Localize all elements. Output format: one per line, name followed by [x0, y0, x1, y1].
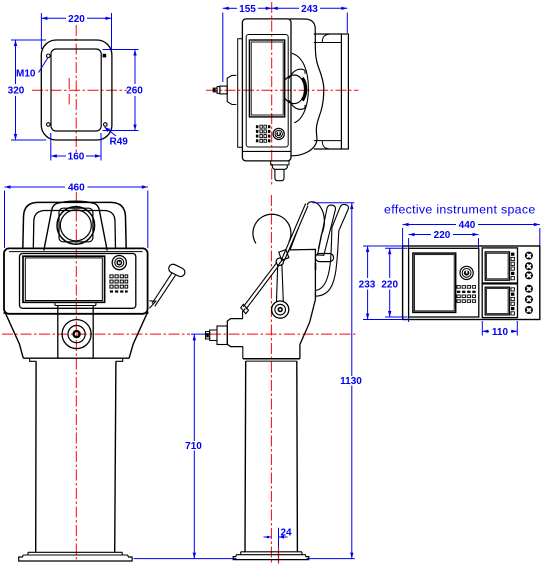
svg-text:260: 260 — [126, 86, 143, 97]
centerline vertical V3 — [75, 192, 77, 562]
svg-text:320: 320 — [8, 86, 25, 97]
keypad grid — [256, 125, 271, 142]
svg-text:233: 233 — [359, 279, 376, 290]
space outer box — [403, 246, 540, 320]
dim 220 panel — [409, 230, 479, 248]
key switch V3 — [112, 256, 126, 270]
keypad V5 — [457, 286, 476, 303]
grip top rim — [289, 69, 305, 78]
centerline horizontal V1 — [32, 89, 127, 91]
head body side — [243, 249, 316, 361]
body shoulder left — [4, 312, 23, 359]
grip bottom rim — [289, 100, 305, 109]
svg-text:220: 220 — [68, 14, 85, 25]
svg-text:24: 24 — [281, 528, 293, 539]
dim 320 left — [8, 40, 46, 140]
column side — [245, 361, 297, 552]
lever arm side — [241, 204, 308, 314]
column front — [36, 361, 116, 552]
outer cover outline — [41, 40, 112, 140]
dim 155 / 243 — [223, 4, 347, 82]
hub circles — [62, 320, 91, 349]
lamp dome side — [253, 214, 291, 243]
pivot bracket — [279, 250, 289, 261]
centerline horizontal V3-V4 — [2, 333, 357, 335]
hand grip end blob — [285, 75, 306, 104]
centerline vertical V1 — [75, 25, 77, 153]
dim 260 right — [103, 50, 144, 131]
screen inner V5 — [414, 255, 454, 311]
control panel outer — [4, 248, 148, 313]
left module box — [409, 248, 479, 317]
dim 460 — [5, 183, 148, 249]
dim 1130 — [307, 203, 363, 559]
handle arch inner — [33, 211, 115, 250]
right module bottom buttons — [511, 288, 514, 315]
screen window inner — [251, 42, 283, 115]
left foot tab — [30, 358, 37, 361]
screen inner V3 — [25, 258, 102, 301]
svg-text:160: 160 — [68, 152, 85, 163]
screen outer V3 — [23, 256, 105, 302]
svg-text:effective instrument space: effective instrument space — [384, 203, 536, 217]
left spigot V2 — [213, 75, 236, 104]
body shoulder right — [129, 312, 148, 359]
svg-text:110: 110 — [492, 327, 509, 338]
pendulum weight circles — [272, 301, 289, 318]
shoulder bottom edge — [23, 357, 129, 359]
svg-text:460: 460 — [68, 183, 85, 194]
svg-text:1130: 1130 — [340, 376, 362, 387]
lever pivot circle — [276, 258, 283, 265]
spigot housing side — [206, 319, 244, 347]
dim 220 top — [41, 13, 111, 49]
centerline vertical V2 — [271, 2, 273, 187]
dim 233 — [359, 246, 403, 320]
right module top box — [482, 248, 517, 283]
svg-text:220: 220 — [381, 279, 398, 290]
right foot tab — [116, 358, 123, 361]
head top blob — [290, 202, 324, 250]
ext tick face box — [408, 317, 410, 322]
head body casting outline — [290, 19, 324, 156]
right module bottom box — [482, 284, 517, 318]
dim 440 — [403, 220, 540, 246]
fastener square top-right — [103, 54, 107, 58]
lever bracket V3 — [149, 301, 155, 309]
key switch V5 — [460, 266, 473, 279]
inner plate outline — [51, 49, 101, 131]
base side — [233, 552, 309, 560]
handle prong front — [318, 205, 336, 255]
screen outer V5 — [413, 253, 456, 312]
lamp mount housing — [44, 201, 107, 250]
svg-text:155: 155 — [239, 4, 256, 15]
keypad V3 — [110, 275, 128, 293]
dim 710 — [134, 334, 237, 558]
right module top screen — [485, 252, 509, 280]
dim 110 — [482, 321, 517, 338]
pendulum arm — [277, 265, 284, 302]
bottom spigot V2 — [271, 161, 289, 181]
base front — [19, 552, 132, 561]
svg-text:M10: M10 — [16, 69, 36, 80]
lamp square plate — [59, 208, 93, 242]
right module top buttons — [511, 253, 514, 280]
title text — [384, 203, 536, 217]
panel left side strip — [238, 39, 243, 148]
knob column — [525, 252, 533, 314]
right module bottom screen — [485, 287, 509, 315]
panel bottom edge line — [243, 150, 291, 152]
hub slot housing — [55, 302, 96, 358]
svg-text:710: 710 — [185, 441, 202, 452]
mounting plate bar — [314, 34, 349, 149]
column offset axis red — [278, 548, 280, 564]
dim 220 vertical — [381, 248, 407, 317]
dim 24 — [264, 528, 293, 548]
centerline vertical V4 — [270, 195, 272, 563]
label R49 with leader — [105, 127, 129, 148]
hole top-left — [47, 54, 51, 58]
head front panel block — [242, 19, 291, 161]
panel bezel — [246, 35, 288, 148]
lever knob V3 — [167, 263, 186, 278]
svg-text:220: 220 — [434, 230, 451, 241]
svg-text:440: 440 — [459, 220, 476, 231]
panel top bevel line — [9, 251, 143, 253]
handle arch outer — [23, 202, 126, 249]
screen window outer — [249, 40, 284, 117]
hand grip bar side — [315, 254, 333, 262]
grip shadow tick — [315, 263, 317, 270]
lever shaft V3 — [152, 273, 176, 307]
panel inner face — [20, 254, 136, 309]
handle prong rear — [316, 204, 349, 296]
key switch V2 — [273, 128, 284, 139]
short center mark — [68, 78, 70, 105]
label M10 with leader — [16, 58, 48, 80]
hole bottom-right — [104, 123, 108, 127]
grip socket arc — [292, 53, 309, 122]
lamp boss circles — [57, 207, 95, 245]
dim 160 bottom — [51, 133, 101, 163]
svg-text:R49: R49 — [110, 137, 129, 148]
hole bottom-left — [47, 123, 51, 127]
centerline horizontal V2 — [206, 89, 359, 91]
svg-text:243: 243 — [301, 4, 318, 15]
